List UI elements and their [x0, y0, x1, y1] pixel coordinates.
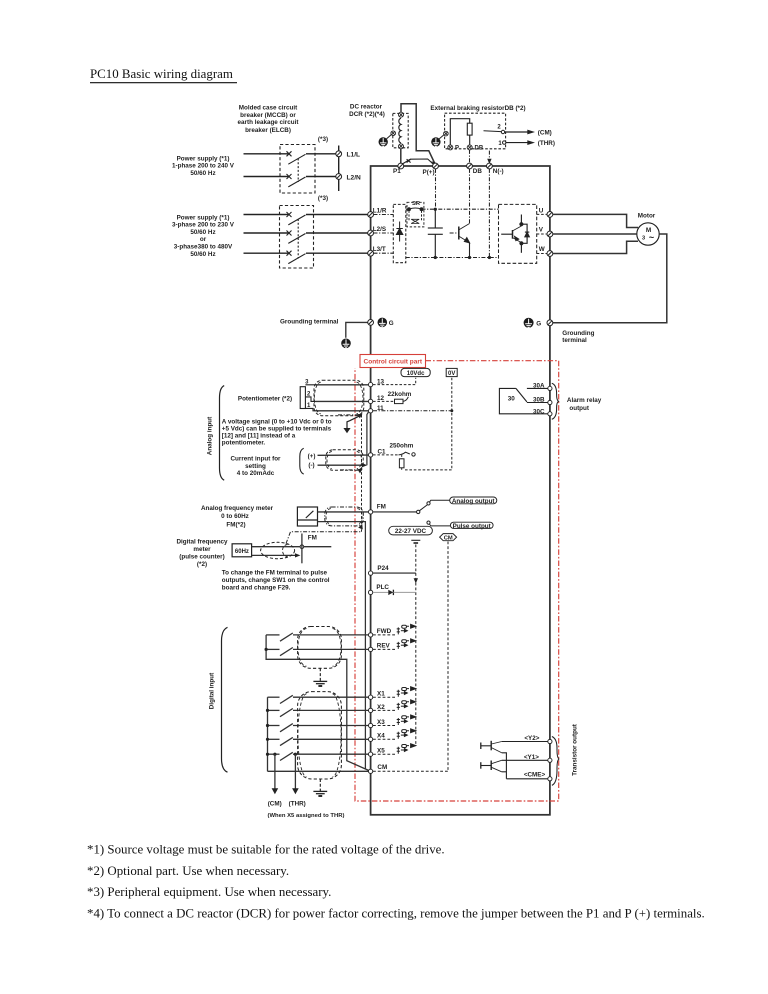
diode in rectifier	[396, 222, 402, 242]
svg-text:Analog input: Analog input	[207, 416, 214, 455]
wire: (THR) branch arrow	[292, 753, 299, 795]
meter analog FM	[297, 507, 317, 526]
svg-text:(*3): (*3)	[318, 136, 328, 143]
transistor output Y2	[481, 741, 502, 753]
label 22-27 VDC (stadium)	[389, 526, 433, 535]
node: chopper emitter to bus	[468, 256, 471, 259]
photocoupler input X1 internal	[373, 687, 416, 698]
wire: 60Hz return	[252, 554, 297, 556]
wire: CM line external	[268, 770, 369, 772]
transistor braking chopper	[450, 224, 470, 258]
terminal P24	[368, 571, 372, 575]
svg-text:P24: P24	[377, 565, 389, 572]
terminal CME	[548, 777, 552, 781]
wire: N(-) down to bus (dash-dot)	[488, 169, 490, 258]
transistor IGBT	[501, 215, 529, 253]
bracket digital input	[222, 627, 228, 772]
svg-text:N(-): N(-)	[493, 168, 504, 175]
node: N(-) to bus	[488, 256, 491, 259]
svg-text:3: 3	[642, 236, 645, 242]
wire: DC bus + to IGBT (dash-dot)	[422, 208, 499, 210]
wire: Y2 collector line	[502, 741, 548, 743]
label 10Vdc box	[401, 368, 430, 376]
terminal 30B	[548, 400, 552, 404]
wire: P24 internal	[373, 572, 416, 574]
switch X4 external	[268, 737, 369, 745]
svg-text:50/60 Hz: 50/60 Hz	[190, 170, 215, 177]
jumper P1 to P(+) (*4)	[402, 159, 435, 165]
wire: (CM) branch arrow	[272, 753, 279, 795]
terminal L1/R	[368, 212, 374, 218]
switch X5 external	[268, 752, 369, 760]
IGBT inverter box	[499, 204, 537, 263]
svg-text:L2/S: L2/S	[373, 226, 386, 233]
svg-text:board and change F29.: board and change F29.	[222, 585, 291, 592]
terminal DB on DB box	[467, 145, 472, 150]
terminal G right	[547, 320, 553, 326]
wire: meter - return down to CM	[318, 522, 366, 769]
svg-text:P: P	[455, 146, 459, 152]
svg-text:~: ~	[649, 233, 654, 243]
wire: left G to earth	[346, 322, 368, 337]
svg-text:(THR): (THR)	[289, 801, 306, 808]
wire: C1 internal (dash)	[373, 454, 399, 456]
svg-text:G: G	[536, 321, 541, 328]
label FM-pulse note	[222, 570, 330, 592]
svg-text:G: G	[389, 320, 394, 327]
terminal V	[547, 231, 553, 237]
wire: W to motor	[553, 241, 638, 253]
wire: N(-) stub up	[488, 151, 490, 160]
svg-text:terminal: terminal	[562, 337, 587, 344]
terminal C1	[368, 453, 372, 457]
ground disc (right G)	[524, 318, 534, 328]
svg-text:Transistor output: Transistor output	[572, 723, 579, 776]
label Digital frequency meter	[176, 539, 228, 569]
svg-text:(*2): (*2)	[197, 561, 207, 568]
label: MCCB text	[238, 105, 300, 134]
wire: breaker2 pole2 out to L2/S	[306, 232, 368, 234]
wire: DB terminal down to chopper (dash-dot)	[469, 169, 471, 224]
svg-text:setting: setting	[245, 463, 266, 470]
terminal L1/L	[336, 151, 342, 157]
terminal X3	[368, 723, 372, 727]
svg-text:250ohm: 250ohm	[390, 442, 414, 449]
svg-text:breaker (ELCB): breaker (ELCB)	[245, 127, 291, 134]
svg-text:1-phase 200 to 240 V: 1-phase 200 to 240 V	[172, 163, 235, 170]
photocoupler input X2 internal	[373, 700, 416, 711]
node: X2 tap	[266, 709, 269, 712]
svg-text:To change the FM terminal to p: To change the FM terminal to pulse	[222, 570, 328, 577]
label Control circuit part (red box)	[360, 355, 426, 368]
terminal U	[547, 212, 553, 218]
potentiometer POT	[300, 385, 315, 411]
svg-text:earth leakage circuit: earth leakage circuit	[238, 119, 300, 126]
svg-text:L2/N: L2/N	[347, 174, 362, 181]
svg-text:W: W	[539, 246, 545, 253]
wire: L3/T stub to rectifier	[374, 252, 394, 254]
photocoupler input X4 internal	[373, 729, 416, 740]
thermal relay contact on DB	[484, 130, 506, 144]
wire: IGBT to V (dash)	[537, 233, 547, 235]
wire: FWD/REV common bus to CM	[266, 635, 370, 771]
shielded cable (potentiometer)	[314, 380, 364, 416]
resistor charging (in SR box)	[409, 211, 422, 224]
main inverter box	[371, 166, 550, 815]
brace alarm outputs	[552, 383, 559, 419]
switch X2 external	[268, 709, 369, 717]
ground disc at DB box	[431, 135, 444, 147]
svg-text:X2: X2	[377, 704, 385, 711]
wire: 13 internal to 10Vdc	[373, 378, 416, 385]
wire: meter + to FM	[318, 511, 369, 513]
svg-text:Digital frequency: Digital frequency	[176, 539, 228, 546]
shielded cable (digital meter)	[261, 542, 295, 558]
svg-text:(*3): (*3)	[318, 195, 328, 202]
wire: IGBT to U (dash)	[537, 213, 547, 215]
wire: CM rail down (dash)	[447, 542, 449, 772]
terminal X5	[368, 752, 372, 756]
wire: 0V rail vertical	[404, 378, 452, 470]
svg-text:30: 30	[508, 395, 516, 402]
svg-text:(+): (+)	[308, 453, 316, 460]
node: REV tap	[265, 648, 268, 651]
node: capacitor bottom	[434, 256, 437, 259]
wire: U to motor	[553, 214, 638, 227]
wire: (+) to C1	[318, 454, 369, 456]
svg-text:Grounding terminal: Grounding terminal	[280, 319, 339, 326]
contactor SR contact	[408, 208, 423, 211]
svg-text:FM: FM	[377, 504, 386, 511]
svg-text:0 to 60Hz: 0 to 60Hz	[221, 513, 249, 520]
terminal P1	[398, 163, 404, 169]
terminal 30A	[548, 386, 552, 390]
label: 1-phase power supply	[172, 155, 235, 177]
svg-text:output: output	[569, 405, 589, 412]
svg-text:<Y2>: <Y2>	[524, 735, 539, 742]
terminal G left	[368, 320, 374, 326]
wire: Y2 emitter to CME rail	[502, 753, 507, 779]
terminal Y1	[548, 758, 552, 762]
wire: pot leads through cable to 13,12,11	[316, 385, 369, 411]
inductor DCR coil	[399, 118, 401, 143]
ground shield FWD/REV cable	[313, 668, 327, 686]
wire: 3-phase line 2	[244, 232, 290, 234]
svg-text:meter: meter	[193, 546, 211, 553]
switch X1 external	[268, 695, 369, 703]
breaker MCCB/ELCB upper (1-phase)	[280, 145, 315, 194]
external braking resistor DB box	[445, 113, 506, 149]
terminal 11	[368, 409, 372, 413]
svg-text:*4) To connect a DC reactor (D: *4) To connect a DC reactor (DCR) for po…	[87, 906, 705, 920]
svg-text:CM: CM	[444, 536, 453, 542]
shielded cable (X1-CM)	[298, 692, 342, 779]
node: X4 tap	[266, 738, 269, 741]
ground disc (left G)	[378, 318, 388, 328]
label CM hexagon	[440, 534, 457, 541]
svg-text:Grounding: Grounding	[562, 330, 594, 337]
switch C1 internal contact	[399, 452, 410, 455]
contactor SR box	[407, 202, 424, 227]
node bar for L1/L,L2/N	[338, 146, 340, 192]
ground disc at DCR	[379, 135, 392, 147]
terminal PLC	[368, 590, 372, 594]
svg-text:V: V	[539, 227, 544, 234]
svg-text:breaker (MCCB) or: breaker (MCCB) or	[240, 112, 296, 119]
svg-text:10Vdc: 10Vdc	[407, 371, 425, 377]
switch FM output select	[417, 500, 451, 526]
wire: 3-phase line 1	[244, 214, 290, 216]
label Analog output (stadium)	[450, 497, 497, 504]
terminal DB	[467, 163, 473, 169]
svg-text:(pulse counter): (pulse counter)	[179, 554, 224, 561]
svg-text:outputs, change SW1 on the con: outputs, change SW1 on the control	[222, 577, 330, 584]
svg-text:Pulse output: Pulse output	[453, 523, 492, 530]
resistor 22kohm	[395, 399, 404, 403]
wire: L2/S stub to rectifier	[374, 232, 394, 234]
wire: thermal 1 to (THR)	[506, 142, 528, 144]
wire: X common bus	[267, 697, 269, 771]
svg-text:30C: 30C	[533, 408, 545, 415]
svg-text:2: 2	[497, 124, 501, 130]
photocoupler input X5 internal	[373, 744, 416, 755]
label 0V box	[446, 368, 457, 376]
label voltage signal note	[222, 418, 332, 446]
svg-text:22-27 VDC: 22-27 VDC	[395, 528, 427, 535]
wire: V to motor	[553, 233, 637, 235]
wire: breaker2 pole3 out to L3/T	[306, 252, 368, 254]
svg-text:[12] and [11] instead of a: [12] and [11] instead of a	[222, 432, 296, 439]
shielded cable (FWD/REV)	[298, 627, 342, 669]
svg-text:30A: 30A	[533, 383, 545, 390]
control circuit boundary (red)	[355, 361, 559, 801]
wire: motor ground return	[553, 234, 667, 323]
terminal N(-)	[487, 163, 493, 169]
svg-text:Power supply (*1): Power supply (*1)	[177, 214, 230, 221]
photocoupler input REV internal	[373, 639, 416, 650]
terminal REV	[368, 647, 372, 651]
terminal W	[547, 251, 553, 257]
switch X3 external	[268, 724, 369, 732]
svg-text:PC10 Basic wiring diagram: PC10 Basic wiring diagram	[90, 67, 233, 81]
svg-text:3-phase 200 to 230 V: 3-phase 200 to 230 V	[172, 222, 235, 229]
ground shield X cable	[313, 779, 327, 796]
label: 3-phase power supply	[172, 214, 235, 257]
svg-text:Motor: Motor	[638, 212, 656, 219]
svg-text:3-phase380 to 480V: 3-phase380 to 480V	[174, 244, 233, 251]
svg-text:4 to 20mAdc: 4 to 20mAdc	[237, 470, 275, 477]
terminal Y2	[548, 739, 552, 743]
label Analog frequency meter	[201, 505, 274, 528]
photocoupler input X3 internal	[373, 715, 416, 726]
shielded cable (analog meter, dash-dot)	[325, 507, 364, 526]
wire: FM tap stub right	[304, 546, 332, 548]
svg-text:(CM): (CM)	[538, 129, 552, 136]
capacitor C (DC link)	[428, 209, 443, 257]
svg-text:(THR): (THR)	[538, 140, 555, 147]
svg-text:Alarm relay: Alarm relay	[567, 397, 602, 404]
wire: 1-phase line 2 to breaker	[244, 176, 290, 178]
svg-text:potentiometer.: potentiometer.	[222, 439, 266, 446]
title	[90, 67, 237, 83]
terminal P(+)	[433, 163, 439, 169]
terminal X2	[368, 708, 372, 712]
svg-text:DC reactor: DC reactor	[350, 104, 383, 111]
ground disc (external earth, left)	[341, 339, 351, 349]
wire: IGBT to W (dash)	[537, 253, 547, 255]
wire: (-) to 11 drop	[318, 464, 364, 466]
svg-text:Potentiometer (*2): Potentiometer (*2)	[238, 395, 292, 402]
battery 22-27VDC	[411, 540, 420, 543]
svg-text:(When X5 assigned to THR): (When X5 assigned to THR)	[268, 813, 345, 819]
shielded cable (current input)	[326, 450, 363, 471]
node: X3 tap	[266, 724, 269, 727]
svg-text:L3/T: L3/T	[373, 246, 386, 253]
wire: DC bus - (bottom, dash-dot)	[406, 257, 499, 259]
wire: FM tap vertical	[301, 534, 303, 564]
brace transistor outputs	[552, 737, 559, 786]
label Current input	[230, 456, 281, 478]
wire: breaker1 pole1 out to L1/L	[306, 153, 336, 155]
wire: Y1 collector line	[502, 759, 548, 761]
wire: 11 to (-) vertical	[367, 412, 369, 465]
wire: breaker2 pole1 out to L1/R	[306, 214, 368, 216]
terminal ground on DB box	[444, 131, 449, 136]
svg-text:(-): (-)	[308, 462, 314, 469]
svg-text:Current input for: Current input for	[230, 456, 281, 463]
svg-text:P(+): P(+)	[423, 169, 435, 176]
terminal 30C	[548, 412, 552, 416]
switch FWD external	[266, 633, 368, 641]
svg-text:DB: DB	[475, 146, 484, 152]
svg-text:Digital input: Digital input	[209, 672, 216, 709]
wire: 22-27VDC rail down to P24 (dash)	[415, 545, 417, 574]
switch REV external	[266, 648, 368, 656]
wire: 1-phase line 1 to breaker	[244, 153, 290, 155]
transistor output Y1	[481, 760, 502, 772]
svg-text:External braking resistorDB (*: External braking resistorDB (*2)	[430, 105, 525, 112]
resistor 250ohm	[399, 459, 404, 468]
svg-text:PLC: PLC	[376, 584, 389, 591]
svg-text:P1: P1	[393, 168, 401, 175]
terminal L2/N	[336, 174, 342, 180]
svg-text:U: U	[539, 207, 544, 214]
terminal DCR top	[399, 112, 404, 117]
wire: 3-phase line 3	[244, 252, 290, 254]
resistor DB element	[467, 123, 472, 135]
svg-text:30B: 30B	[533, 397, 545, 404]
node: FM tap junction	[300, 545, 304, 549]
terminal 12	[368, 399, 372, 403]
svg-text:X4: X4	[377, 733, 385, 740]
node: bus junction at P(+) drop	[434, 208, 437, 211]
svg-text:or: or	[200, 236, 207, 243]
wire: DB box to DB terminal (dash-dot)	[469, 150, 471, 163]
wire: P(+) down to bus	[435, 169, 437, 209]
wire: FM internal to switch	[373, 511, 416, 513]
terminal X4	[368, 737, 372, 741]
svg-text:CM: CM	[377, 764, 387, 771]
arrow: instead-of pointer	[347, 416, 359, 428]
node: X5 tap	[266, 753, 269, 756]
label DC reactor	[349, 104, 385, 118]
terminal DCR bottom	[399, 144, 404, 149]
svg-text:L1/R: L1/R	[373, 208, 387, 215]
svg-text:50/60 Hz: 50/60 Hz	[190, 229, 215, 236]
shield drain (digital meter cable, dash-dot)	[286, 532, 362, 544]
terminal X1	[368, 695, 372, 699]
wire: CME line	[506, 778, 547, 780]
terminal CM	[368, 769, 372, 773]
svg-text:X5: X5	[377, 748, 385, 755]
wire: breaker1 pole2 out to L2/N	[306, 176, 336, 178]
shield drain (current cable, dash-dot)	[340, 469, 362, 471]
DC reactor DCR box	[393, 113, 408, 147]
motor M	[637, 223, 659, 245]
svg-text:X1: X1	[377, 691, 385, 698]
meter digital 60Hz	[232, 544, 252, 557]
label Pulse output (stadium)	[450, 522, 493, 528]
svg-text:FM(*2): FM(*2)	[226, 521, 245, 528]
wire: 11 internal to 0V rail (dash-dot)	[373, 410, 452, 412]
svg-text:FWD: FWD	[377, 628, 392, 635]
svg-text:Power supply (*1): Power supply (*1)	[177, 155, 230, 162]
shield drain (pot cable, dash-dot)	[338, 414, 362, 416]
terminal FM	[368, 510, 372, 514]
terminal ground on DCR box	[391, 131, 396, 136]
svg-text:Control circuit part: Control circuit part	[364, 359, 423, 366]
photocoupler input FWD internal	[373, 624, 416, 635]
svg-text:+5 Vdc) can be supplied to ter: +5 Vdc) can be supplied to terminals	[222, 425, 332, 432]
svg-text:0V: 0V	[448, 371, 455, 377]
wire: 12 internal (dash)	[373, 400, 395, 402]
terminal P on DB box	[448, 145, 453, 150]
svg-text:Analog output: Analog output	[452, 498, 496, 505]
wire: thermal 2 to (CM)	[505, 131, 528, 133]
svg-text:Molded case circuit: Molded case circuit	[239, 105, 298, 112]
terminal L2/S	[368, 230, 374, 236]
wire: P1 up to DCR bottom	[400, 149, 402, 164]
bracket analog input	[220, 386, 225, 481]
svg-text:<CME>: <CME>	[524, 772, 546, 779]
wire: 60Hz to FM tap	[252, 546, 300, 548]
wire: DCR top bypass to P(+)	[401, 104, 435, 164]
svg-text:*2) Optional part. Use when ne: *2) Optional part. Use when necessary.	[87, 864, 289, 878]
wire: L1/R stub to rectifier	[374, 214, 394, 216]
wire: P to resistor top	[450, 119, 469, 145]
shield chain vertical (dashed)	[361, 415, 363, 532]
svg-text:C1: C1	[378, 448, 387, 455]
svg-text:50/60 Hz: 50/60 Hz	[190, 251, 215, 258]
svg-text:X3: X3	[377, 719, 385, 726]
svg-text:*1) Source voltage must be sui: *1) Source voltage must be suitable for …	[87, 843, 445, 857]
svg-text:DB: DB	[473, 168, 483, 175]
svg-text:Analog frequency meter: Analog frequency meter	[201, 505, 274, 512]
node: 0V rail junction	[450, 409, 453, 412]
wire: internal 24V rail (dash)	[415, 573, 417, 745]
svg-text:*3) Peripheral equipment. Use: *3) Peripheral equipment. Use when neces…	[87, 885, 331, 899]
wire: Y1 emitter to CME rail	[502, 771, 507, 773]
rectifier box	[393, 204, 406, 262]
breaker MCCB/ELCB lower (3-phase)	[280, 206, 314, 269]
svg-text:A voltage signal (0 to +10 Vdc: A voltage signal (0 to +10 Vdc or 0 to	[222, 418, 332, 425]
terminal FWD	[368, 633, 372, 637]
svg-text:REV: REV	[377, 643, 391, 650]
svg-text:<Y1>: <Y1>	[524, 754, 539, 761]
svg-text:60Hz: 60Hz	[235, 549, 249, 555]
wire: CM internal (dash)	[373, 770, 448, 772]
terminal 13	[368, 382, 372, 386]
